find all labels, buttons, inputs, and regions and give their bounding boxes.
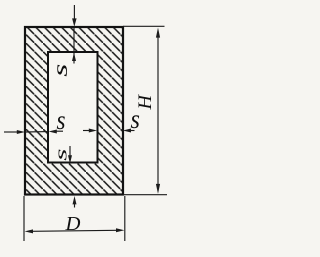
- svg-text:s: s: [49, 64, 72, 77]
- svg-text:s: s: [57, 104, 66, 136]
- svg-text:D: D: [64, 213, 80, 235]
- svg-text:H: H: [136, 94, 156, 111]
- svg-text:s: s: [53, 149, 71, 161]
